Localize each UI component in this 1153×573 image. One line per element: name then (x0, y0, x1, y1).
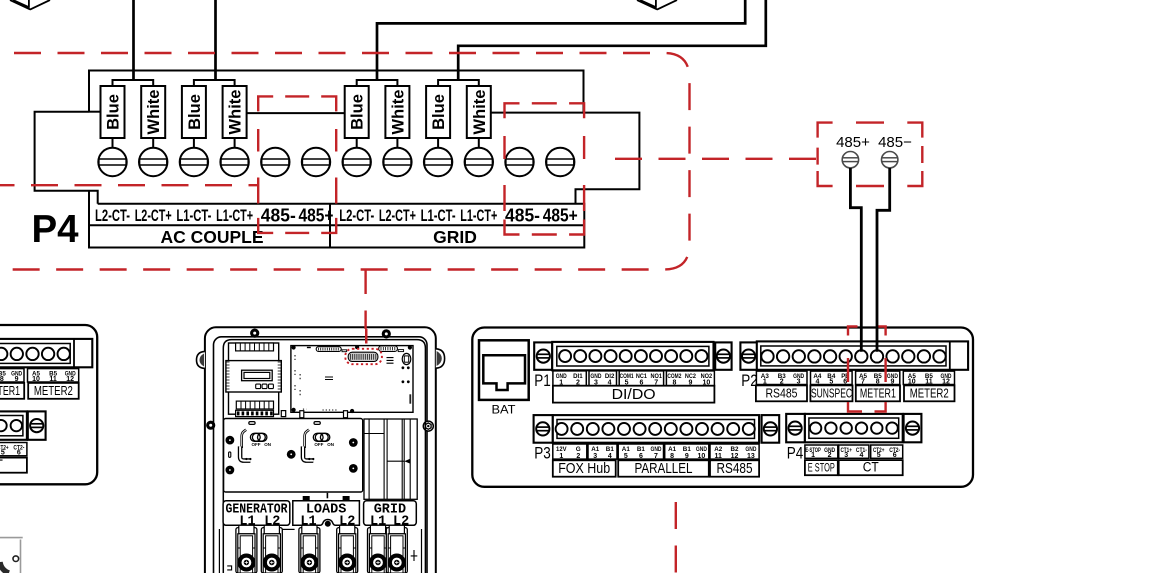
svg-text:4: 4 (608, 453, 612, 460)
svg-text:Blue: Blue (105, 94, 123, 130)
svg-text:L1-CT-: L1-CT- (421, 206, 456, 225)
wire White10 to right bump (490, 112, 584, 114)
svg-text:GRID: GRID (433, 227, 477, 247)
nubs above bands (303, 496, 310, 501)
wire label White t2 (141, 86, 165, 138)
wire V2 from top CT to AC pair2 (214, 0, 217, 80)
PCB bottom tabs (300, 411, 304, 418)
svg-text:L2-CT-: L2-CT- (339, 206, 374, 225)
P4 strip (786, 414, 805, 442)
pair junction (357, 80, 398, 86)
svg-text:8: 8 (670, 453, 674, 460)
band separator line (89, 224, 584, 226)
svg-text:L1-CT+: L1-CT+ (216, 206, 253, 225)
svg-text:5: 5 (877, 452, 881, 459)
comm board outline (472, 328, 973, 487)
P4 block outline (89, 71, 639, 204)
bottom-left meter fragment (0, 538, 23, 573)
svg-text:1: 1 (811, 452, 815, 459)
red dashed region boundary rounded (10, 53, 690, 270)
label band GENERATOR (223, 501, 290, 526)
label band LOADS (293, 501, 360, 526)
svg-text:485-: 485- (261, 206, 296, 226)
svg-text:485+: 485+ (836, 134, 870, 151)
pair junction (438, 80, 479, 86)
meter 485plus screw (842, 152, 858, 168)
left partial comm board (0, 325, 97, 484)
svg-text:White: White (471, 90, 489, 135)
svg-text:P3: P3 (534, 443, 551, 462)
P1 strip (534, 342, 552, 369)
wire stub box edge to Blue1 (89, 111, 101, 113)
energy meter on DIN rail (229, 343, 279, 414)
svg-text:4: 4 (859, 452, 863, 459)
svg-text:6: 6 (893, 452, 897, 459)
svg-text:ON: ON (327, 442, 334, 447)
screw terminals row (98, 148, 126, 176)
svg-text:9: 9 (890, 378, 894, 385)
svg-text:13: 13 (747, 453, 755, 460)
label band GRID (364, 501, 417, 526)
breakers (236, 525, 257, 573)
svg-text:2: 2 (780, 378, 784, 385)
svg-text:11: 11 (925, 378, 933, 385)
svg-text:8: 8 (876, 378, 880, 385)
red dashed lead-in (365, 329, 367, 344)
wire label Blue t3 (182, 86, 206, 138)
band middle divider (329, 204, 331, 248)
svg-text:RS485: RS485 (717, 461, 753, 477)
svg-text:3: 3 (797, 378, 801, 385)
meter LCD (242, 370, 273, 381)
wire V3 grid pair1 routed to top-right CT (377, 0, 745, 80)
svg-text:BAT: BAT (492, 405, 516, 417)
panel screws top (250, 329, 259, 338)
svg-text:485-: 485- (505, 206, 540, 226)
svg-text:6: 6 (843, 378, 847, 385)
red dashed highlight P2 meter pins (848, 327, 886, 412)
left mounting ear (197, 351, 205, 368)
svg-text:L1-CT-: L1-CT- (176, 206, 211, 225)
svg-text:5: 5 (624, 453, 628, 460)
svg-text:3: 3 (844, 452, 848, 459)
svg-text:Blue: Blue (186, 94, 204, 130)
red dashed link to meter 485 (615, 158, 817, 160)
wire V1 from top CT to AC pair1 (132, 0, 135, 80)
svg-text:White: White (227, 90, 245, 135)
svg-text:P4: P4 (31, 208, 79, 251)
bracket slots (249, 422, 255, 425)
svg-text:6: 6 (639, 453, 643, 460)
svg-text:METER1: METER1 (860, 386, 896, 401)
svg-text:L2-CT-: L2-CT- (95, 206, 130, 225)
wire label White t10 (467, 86, 491, 138)
svg-text:White: White (389, 90, 407, 135)
P3 strip (534, 415, 553, 443)
svg-text:3: 3 (593, 453, 597, 460)
svg-text:Blue: Blue (430, 94, 448, 130)
svg-text:P4: P4 (787, 443, 804, 462)
meter bottom comb (236, 401, 273, 409)
svg-text:7: 7 (861, 378, 865, 385)
svg-text:5: 5 (829, 378, 833, 385)
svg-text:AC COUPLE: AC COUPLE (160, 227, 263, 247)
meter side ribs (226, 361, 230, 363)
svg-text:P2: P2 (741, 371, 758, 390)
svg-text:11: 11 (714, 453, 722, 460)
red dashed line to AC couple 485 (0, 184, 258, 186)
PCB connector left (316, 347, 341, 352)
wire label White t8 (385, 86, 409, 138)
svg-text:E STOP: E STOP (808, 462, 835, 474)
CT clamp corner top-right (637, 0, 677, 9)
svg-text:485+: 485+ (543, 206, 578, 226)
cross wire between White4 and Blue7 (246, 112, 344, 114)
svg-text:1: 1 (559, 453, 563, 460)
svg-text:485−: 485− (878, 134, 912, 151)
svg-text:2: 2 (576, 453, 580, 460)
breaker panel outer frame (205, 327, 436, 573)
svg-text:SUNSPEC: SUNSPEC (811, 386, 852, 401)
svg-text:FOX Hub: FOX Hub (558, 461, 610, 477)
hex screw right (423, 421, 433, 431)
meter buttons (256, 384, 261, 389)
svg-text:PARALLEL: PARALLEL (635, 461, 693, 477)
DIN rail terminal row (236, 410, 274, 416)
wire label Blue t7 (345, 86, 369, 138)
svg-text:CT: CT (863, 459, 879, 474)
CT clamp corner top-left (10, 0, 50, 9)
svg-text:9: 9 (685, 453, 689, 460)
svg-text:RS485: RS485 (766, 386, 798, 401)
P4 block left bump outline (35, 112, 98, 204)
svg-text:METER2: METER2 (910, 386, 949, 401)
svg-text:12: 12 (942, 378, 950, 385)
control PCB (291, 346, 413, 413)
PCB small parts (387, 358, 394, 364)
svg-text:L2-CT+: L2-CT+ (379, 206, 416, 225)
svg-text:485+: 485+ (299, 206, 334, 226)
wire 485+ down to P2 pin7 (850, 168, 861, 352)
red dashed branch down to PCB connector (364, 270, 366, 330)
wire label White t4 (223, 86, 247, 138)
central connector highlighted (348, 352, 378, 361)
breaker toggle 2 (305, 430, 309, 448)
svg-text:L1-CT+: L1-CT+ (460, 206, 497, 225)
meter 485minus screw (882, 152, 898, 168)
svg-text:2: 2 (828, 452, 832, 459)
right mounting ear (436, 349, 445, 368)
svg-text:4: 4 (815, 378, 819, 385)
red dashed box GRID 485 terminals (505, 103, 585, 234)
red dotted highlight box (345, 349, 382, 364)
PCB connector right (379, 346, 398, 352)
svg-text:White: White (145, 90, 163, 135)
svg-text:12: 12 (731, 453, 739, 460)
label band box (89, 191, 584, 248)
deadfront bracket (224, 419, 363, 493)
breaker toggle 1 (242, 430, 246, 448)
red dashed box AC 485 terminals (258, 96, 336, 233)
svg-text:OFF: OFF (314, 442, 323, 447)
wire label Blue t9 (426, 86, 450, 138)
wire label Blue t1 (101, 86, 125, 138)
bracket screws (226, 436, 235, 445)
red dashed line below comm board (675, 489, 677, 573)
pair junction (113, 80, 154, 86)
red dashed box meter 485 (818, 123, 923, 186)
wire 485- down to P2 pin8 (877, 168, 890, 352)
svg-text:DI/DO: DI/DO (612, 386, 656, 403)
right gutter (364, 419, 417, 499)
BAT port (479, 340, 529, 400)
svg-text:Blue: Blue (349, 94, 367, 130)
svg-text:10: 10 (698, 453, 706, 460)
svg-text:1: 1 (763, 378, 767, 385)
P2 strip (740, 342, 757, 369)
wire V4 grid pair2 routed to top-right CT (458, 0, 766, 80)
inner recess (223, 340, 425, 573)
svg-text:ON: ON (264, 442, 271, 447)
svg-text:P1: P1 (534, 371, 551, 390)
svg-text:L2-CT+: L2-CT+ (135, 206, 172, 225)
pair junction (194, 80, 235, 86)
svg-text:7: 7 (654, 453, 658, 460)
svg-text:10: 10 (908, 378, 916, 385)
panel screws mid (206, 421, 215, 430)
bottom frame lines (218, 529, 220, 573)
svg-text:OFF: OFF (252, 442, 261, 447)
